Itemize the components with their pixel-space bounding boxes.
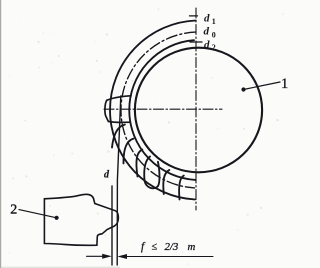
gear circle 1 (body circle) <box>135 48 262 173</box>
leader line 2 <box>19 210 57 218</box>
probe part 2 outline <box>44 194 118 245</box>
U tooth left flank <box>144 157 150 181</box>
horizontal centerline <box>104 108 222 110</box>
tooth at 9 o'clock: bottom edge <box>108 120 129 123</box>
leader dot for 1 <box>241 87 245 91</box>
U tooth bottom arc <box>145 181 159 189</box>
tick d2 <box>190 41 202 43</box>
measuring line left <box>111 186 113 265</box>
pitch arc d0 (dash-dot) <box>121 32 196 188</box>
right arrowhead pointing left <box>117 254 127 259</box>
svg-text:d: d <box>204 39 210 51</box>
svg-text:1: 1 <box>212 17 216 26</box>
measuring line right <box>117 96 121 265</box>
flank F2 <box>123 139 133 164</box>
svg-text:0: 0 <box>212 30 216 39</box>
left arrowhead pointing right <box>102 254 112 259</box>
leader dot for 2 <box>55 216 59 220</box>
arrowheads <box>55 87 246 259</box>
svg-text:2/3: 2/3 <box>165 241 179 253</box>
svg-text:≤: ≤ <box>152 242 158 253</box>
svg-text:2: 2 <box>212 43 216 52</box>
leader line 1 <box>244 82 281 90</box>
flank F1 <box>112 125 125 148</box>
svg-text:1: 1 <box>281 76 288 92</box>
tooth at 9 o'clock: top edge <box>107 96 131 101</box>
f dimension left arrow line <box>87 255 105 257</box>
tick d1 <box>190 15 198 17</box>
tip arc d1 <box>110 21 196 200</box>
f dimension right arrow line <box>126 256 213 258</box>
svg-text:m: m <box>188 241 196 253</box>
flank F3 <box>136 150 142 177</box>
svg-text:d: d <box>204 12 210 24</box>
tooth at 9 o'clock: tip bulge <box>105 100 108 121</box>
flank F5 <box>163 170 169 194</box>
svg-text:d: d <box>204 25 210 37</box>
U tooth right flank <box>158 162 160 186</box>
root arc d2 <box>129 40 195 180</box>
vertical centerline <box>195 8 197 210</box>
flank F6 <box>179 176 184 200</box>
svg-text:2: 2 <box>10 202 17 217</box>
